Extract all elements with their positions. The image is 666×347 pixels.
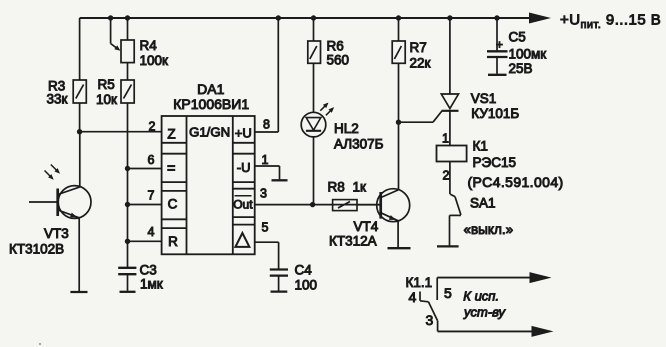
svg-text:=: = xyxy=(167,161,175,177)
svg-text:C5: C5 xyxy=(509,30,526,45)
svg-text:Out: Out xyxy=(233,197,253,211)
svg-text:РЭС15: РЭС15 xyxy=(473,155,516,170)
svg-text:К1: К1 xyxy=(473,139,488,154)
svg-text:C: C xyxy=(168,197,178,212)
svg-text:100к: 100к xyxy=(140,53,169,68)
svg-text:7: 7 xyxy=(148,189,155,203)
svg-text:КТ3102В: КТ3102В xyxy=(9,242,64,257)
svg-text:4: 4 xyxy=(148,225,155,239)
svg-text:8: 8 xyxy=(263,118,270,132)
svg-text:2: 2 xyxy=(149,120,156,134)
svg-text:SA1: SA1 xyxy=(470,196,496,211)
svg-text:22к: 22к xyxy=(410,56,431,71)
svg-text:4: 4 xyxy=(409,289,417,305)
svg-text:R8: R8 xyxy=(328,180,345,195)
svg-text:+: + xyxy=(496,38,503,52)
svg-text:100: 100 xyxy=(295,278,318,293)
svg-text:«выкл.»: «выкл.» xyxy=(464,222,514,237)
svg-text:R: R xyxy=(168,234,178,249)
svg-text:уст-ву: уст-ву xyxy=(463,304,507,319)
svg-text:Z: Z xyxy=(167,126,175,141)
svg-text:R6: R6 xyxy=(327,38,344,53)
svg-text:-U: -U xyxy=(237,160,251,175)
svg-text:33к: 33к xyxy=(47,92,68,107)
svg-text:2: 2 xyxy=(443,169,450,183)
svg-text:10к: 10к xyxy=(96,92,117,107)
svg-text:VS1: VS1 xyxy=(471,91,497,106)
svg-text:C3: C3 xyxy=(140,263,157,278)
svg-text:1мк: 1мк xyxy=(140,277,163,292)
svg-text:560: 560 xyxy=(327,53,350,68)
svg-text:VT4: VT4 xyxy=(354,219,379,234)
svg-text:(РС4.591.004): (РС4.591.004) xyxy=(468,174,564,190)
svg-text:6: 6 xyxy=(148,153,155,167)
svg-text:КР1006ВИ1: КР1006ВИ1 xyxy=(173,96,249,112)
svg-text:5: 5 xyxy=(444,285,452,301)
svg-text:R5: R5 xyxy=(98,77,115,92)
svg-text:C4: C4 xyxy=(295,263,313,278)
svg-text:5: 5 xyxy=(262,221,269,235)
svg-text:R4: R4 xyxy=(140,38,158,53)
svg-text:1: 1 xyxy=(442,132,449,146)
svg-text:DA1: DA1 xyxy=(197,81,224,97)
svg-text:G1/GN: G1/GN xyxy=(189,125,230,140)
svg-text:25В: 25В xyxy=(509,61,533,76)
svg-text:VT3: VT3 xyxy=(44,226,69,241)
svg-text:+Uпит. 9...15 В: +Uпит. 9...15 В xyxy=(560,12,661,32)
svg-text:К1.1: К1.1 xyxy=(406,275,433,290)
svg-text:АЛ307Б: АЛ307Б xyxy=(334,137,384,152)
svg-text:КТ312А: КТ312А xyxy=(329,234,377,249)
svg-text:3: 3 xyxy=(260,187,267,201)
svg-text:+U: +U xyxy=(235,125,252,140)
svg-text:3: 3 xyxy=(426,312,434,328)
svg-text:100мк: 100мк xyxy=(509,47,547,62)
svg-text:1: 1 xyxy=(262,153,269,167)
svg-text:КУ101Б: КУ101Б xyxy=(471,106,519,121)
svg-text:R7: R7 xyxy=(410,40,427,55)
svg-text:HL2: HL2 xyxy=(334,121,359,136)
svg-text:1к: 1к xyxy=(353,180,367,195)
svg-text:К исп.: К исп. xyxy=(463,288,499,303)
